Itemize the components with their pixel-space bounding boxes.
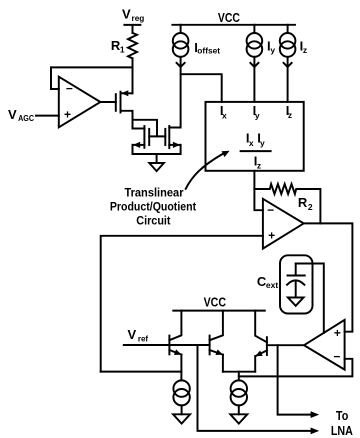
svg-text:R: R [298,195,308,210]
capacitor Cext label [257,274,278,290]
transistor M3 gate bar [164,129,166,145]
label VAGC [8,107,34,123]
label Vref [128,327,149,344]
fraction bar [241,150,271,152]
wire Ioffset branch to box Ix input [181,74,222,102]
label VCC top [218,10,240,25]
label Ix box pin [220,103,227,121]
svg-text:To: To [336,408,348,423]
svg-text:V: V [122,7,131,22]
translinear circuit box [206,102,304,171]
wire M1 source to mirror gates [133,120,158,137]
label Product/Quotient [110,199,196,213]
wire op-amp U1 output to M1 gate [100,101,115,103]
label Vreg [122,7,144,23]
svg-text:+: + [268,229,275,243]
svg-text:LNA: LNA [331,423,354,438]
label To [336,408,348,423]
wire VAGC input [36,115,59,117]
svg-text:y: y [260,138,265,148]
wire To LNA upper with arrow [278,345,320,418]
wire feedback vertical [50,67,52,89]
svg-text:y: y [255,110,260,120]
svg-text:x: x [222,110,227,120]
svg-text:z: z [303,45,307,55]
svg-text:1: 1 [120,45,125,55]
op-amp U2 [263,199,304,249]
transistor M1 channel bar [120,92,122,113]
current source bottom 2 [230,380,247,423]
transistor M2 channel bar [143,126,145,148]
label VCC bottom [204,294,227,309]
Cext block rounded box [280,255,313,313]
wire Vref node down to lower LNA line [198,345,320,434]
svg-text:ref: ref [138,333,148,343]
label Iz box pin [286,103,292,120]
svg-text:Circuit: Circuit [136,213,170,227]
wire ground stub [156,154,158,163]
resistor R1 [128,33,137,58]
capacitor C curved plate [287,280,304,284]
label LNA [331,423,354,438]
wire R1 bottom column to M1 drain corner [132,58,134,93]
transistor Q3 [255,311,267,372]
svg-text:V: V [8,107,17,122]
transistor M3 source wire with right arrow [169,142,180,148]
svg-text:z: z [288,110,292,120]
VCC rail top [172,24,295,26]
current source Iz [280,25,296,102]
resistor R2 with feedback wire [254,184,320,223]
wire U3 minus feedback to tail node [239,359,353,377]
wire box output to op-amp U2 minus [254,171,263,210]
current source Iy [247,25,263,102]
svg-text:Product/Quotient: Product/Quotient [110,199,196,213]
op-amp U3 [304,320,345,370]
svg-text:VCC: VCC [204,294,227,309]
wire mirror source bucket [133,145,181,154]
capacitor C top plate [288,264,305,276]
wire U2 output to U3 plus [304,223,353,331]
svg-text:−: − [267,203,274,217]
ground symbol mirror [149,163,164,171]
ground symbol in Cext [288,298,304,306]
svg-text:x: x [249,138,254,148]
svg-text:ext: ext [266,280,278,290]
wire Vreg to R1 [132,25,134,33]
wire mirror gate rail [149,135,165,137]
transistor M2 gate bar [148,129,150,145]
transistor M1 drain wire with arrow [121,90,133,96]
svg-text:+: + [334,326,341,340]
transistor Q2 [210,311,223,372]
transistor Q1 [169,311,181,381]
transistor M1 source wire [121,111,133,129]
svg-text:V: V [128,327,137,342]
wire sense node to Q1 emitter [101,371,182,373]
label formula Iz [254,154,261,171]
svg-text:2: 2 [308,202,313,212]
svg-text:+: + [64,107,71,121]
svg-text:reg: reg [132,13,145,23]
wire M3 drain up to Ioffset column [169,57,180,128]
wire M2 drain [133,128,145,130]
transistor M2 source wire with left arrow [133,142,145,148]
label R1 [111,38,125,55]
label Iy top [267,38,275,55]
wire Vref base rail [124,344,210,346]
svg-text:z: z [257,161,261,171]
label Translinear [124,186,183,200]
svg-text:VCC: VCC [218,10,240,25]
current source bottom 1 [173,380,190,423]
svg-text:y: y [270,45,275,55]
current source Ioffset [173,25,189,67]
svg-text:offset: offset [197,46,220,56]
wire feedback horizontal [51,66,133,68]
label Iy box pin [253,103,260,121]
svg-text:Translinear: Translinear [124,186,183,200]
wire feedback stub to op-amp minus [51,88,59,90]
wire U3 output to Q3 base [267,344,304,346]
label Circuit [136,213,170,227]
wire Cext out to U3 plus node [296,264,324,333]
label Ioffset [194,40,220,56]
Vreg supply terminal bar [124,24,140,26]
curved annotation arrow [186,148,231,189]
label formula IxIy [246,131,265,149]
label R2 [298,195,313,212]
wire Q2 Q3 emitter bucket [223,371,255,373]
wire U2 plus input long horizontal [101,236,263,372]
transistor M3 channel bar [168,126,170,148]
svg-text:−: − [333,350,340,364]
wire tail node drop [238,372,240,381]
op-amp U1 [59,77,101,128]
wire cap to ground arrow [295,282,297,298]
svg-text:AGC: AGC [18,113,34,123]
transistor M1 gate bar [115,94,117,111]
label Iz top [300,38,308,55]
svg-text:−: − [66,82,73,96]
VCC rail bottom [173,310,264,312]
